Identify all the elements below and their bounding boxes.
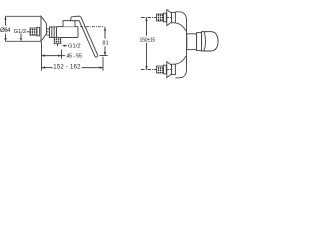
svg-text:45 - 55: 45 - 55 [66,53,82,59]
svg-text:152 - 162: 152 - 162 [53,65,81,71]
svg-text:81: 81 [102,41,108,47]
svg-text:150±15: 150±15 [140,38,156,44]
svg-text:G1/2: G1/2 [14,29,27,35]
svg-text:Ø64: Ø64 [0,28,11,34]
svg-text:G1/2: G1/2 [68,44,81,50]
